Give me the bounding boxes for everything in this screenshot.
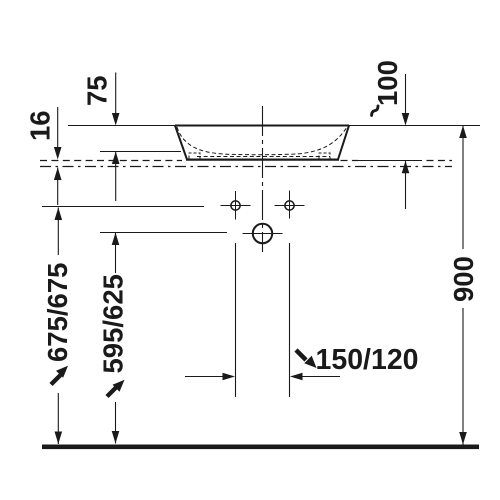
svg-text:16: 16 [25, 110, 56, 141]
dimension 900 line [462, 126, 464, 250]
svg-text:150/120: 150/120 [316, 344, 419, 376]
faucet extension line left [235, 243, 237, 397]
dimension ~100 line [405, 74, 407, 116]
dimension 595/625 line [115, 233, 117, 274]
svg-text:675/675: 675/675 [42, 263, 73, 362]
~100 extension line solid [358, 160, 422, 162]
drain hole [253, 224, 272, 243]
counter bottom dash-dot line [40, 166, 452, 168]
rim level reference line [68, 125, 480, 127]
dimension 675/675 line [57, 208, 59, 256]
dimension 150/120 left arrow [185, 376, 224, 378]
NE arrow for 595/625 [107, 387, 117, 397]
75 depth reference line [100, 151, 181, 153]
floor line [42, 445, 479, 450]
basin outline [175, 126, 349, 160]
drain reference line [100, 232, 227, 234]
faucet hole left [231, 201, 240, 210]
basin right foot dashed [319, 153, 330, 159]
counter dashes right of extension [427, 160, 453, 162]
center line [262, 106, 264, 252]
basin left foot dashed [189, 153, 200, 159]
tilde of ~100 [372, 106, 378, 115]
faucet holes reference line [42, 206, 204, 208]
counter top dashed line right [341, 160, 359, 162]
svg-text:595/625: 595/625 [98, 274, 129, 373]
dimension 75 line upper [115, 73, 117, 117]
svg-text:75: 75 [82, 75, 113, 106]
faucet extension line right [289, 243, 291, 397]
faucet hole right [285, 201, 294, 210]
SE arrow for 150/120 [296, 350, 306, 360]
NE arrow for 675/675 [51, 375, 61, 385]
dimension 150/120 right arrow [300, 376, 340, 378]
counter top dashed line left [40, 160, 182, 162]
dimension 16 line upper [57, 107, 59, 150]
basin inner bottom dashed line [197, 156, 330, 158]
basin inner bowl dashed curve [177, 127, 347, 155]
svg-text:900: 900 [448, 256, 479, 302]
dimension 75 line lower [115, 152, 117, 202]
svg-text:100: 100 [372, 60, 403, 106]
dimension 16 line lower [57, 168, 59, 206]
